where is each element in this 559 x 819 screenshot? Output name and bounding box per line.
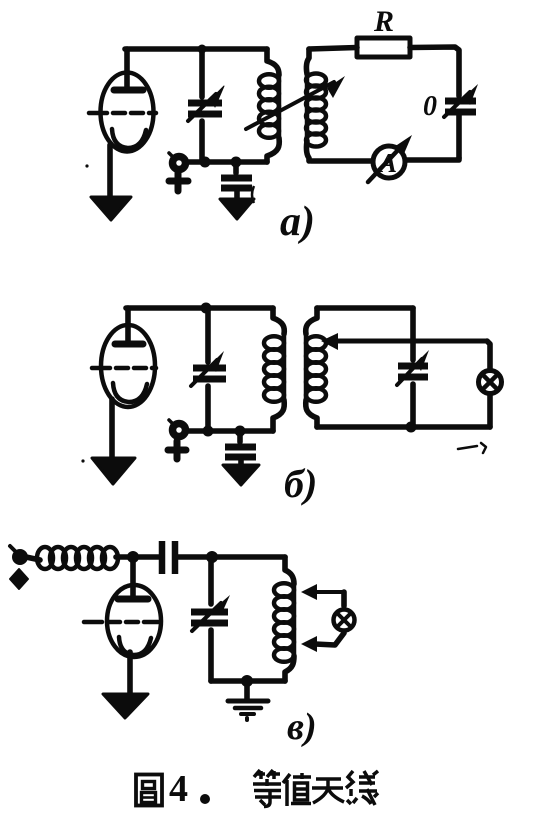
- tube V3 envelope: [107, 585, 161, 657]
- tube V1 cathode: [112, 129, 146, 148]
- capacitor C8 arrow: [192, 603, 221, 631]
- capacitor C6 arrow: [397, 359, 422, 385]
- tube V1 envelope: [101, 73, 154, 152]
- stray mark (print artifact): [458, 443, 486, 453]
- wire: junction 2 to coil branch: [212, 554, 285, 560]
- hanzi TU (picture): [136, 775, 162, 806]
- capacitor C6 variable branch: [410, 308, 416, 360]
- antenna terminal blob: [13, 550, 27, 564]
- speck: [81, 459, 84, 462]
- wire: top wire of grid tank (tube anode to coil L1): [125, 46, 267, 52]
- capacitor C6 plates: [398, 363, 428, 370]
- tap arrow lower: [315, 633, 344, 645]
- node: junction bottom of C1: [200, 157, 211, 168]
- capacitor C4 variable branch: [205, 308, 211, 362]
- tube V2 plate: [115, 341, 143, 348]
- ammeter A: [373, 146, 405, 178]
- ground arrow below C5: [223, 465, 259, 485]
- hanzi DENG (equal): [253, 770, 281, 807]
- capacitor C8 variable branch: [208, 557, 214, 604]
- svg-text:б): б): [284, 461, 317, 506]
- resistor R: [357, 38, 410, 57]
- wire: resistor to right corner: [410, 47, 459, 96]
- stray mark (print artifact): [252, 186, 254, 203]
- ground arrow below tube V3: [103, 694, 148, 718]
- tube V3 plate: [118, 596, 148, 603]
- tube V1 grid (dashed): [89, 111, 156, 116]
- wire: lamp branch down: [487, 341, 490, 368]
- wire: junction to capacitor C7: [133, 554, 159, 560]
- node: junction above tube: [127, 551, 139, 563]
- lamp HL1: [479, 371, 502, 394]
- earth ground symbol: [244, 681, 250, 699]
- capacitor C4 plates: [193, 365, 226, 372]
- speck: [85, 164, 88, 167]
- wire: terminal to coil: [26, 557, 40, 560]
- wire: capacitor to junction 2: [178, 554, 212, 560]
- capacitor C8 plates: [191, 609, 228, 616]
- inductor L3 (primary coil): [273, 308, 284, 334]
- plus mark: [168, 441, 186, 459]
- svg-text:4: 4: [169, 768, 188, 810]
- tube V2 envelope: [101, 325, 155, 407]
- wire: coil to junction: [116, 554, 133, 560]
- wire: cathode lead: [109, 399, 115, 467]
- diamond mark: [10, 569, 28, 589]
- capacitor C3 variable: [456, 115, 462, 158]
- inductor L4 (secondary coil): [306, 308, 317, 334]
- tube V1 anode lead: [124, 49, 130, 87]
- wire: cathode lead down: [107, 145, 113, 207]
- terminal circle (antenna post): [173, 157, 186, 170]
- inductor L1 (tank coil): [267, 49, 279, 75]
- tube V2 cathode: [113, 383, 147, 402]
- hanzi TIAN (sky): [312, 779, 344, 803]
- node: junction C6 bottom: [406, 422, 417, 433]
- lamp HL2: [334, 610, 355, 631]
- wire: tank bottom: [211, 678, 285, 684]
- inductor L2 (secondary coil): [306, 49, 309, 74]
- tube V3 anode lead: [130, 557, 136, 596]
- capacitor C1 plates: [188, 100, 222, 107]
- wire: lamp to bottom: [487, 396, 493, 427]
- tap arrow upper: [315, 590, 344, 594]
- terminal circle: [173, 424, 186, 437]
- ground arrow below tube V1: [91, 197, 131, 220]
- hanzi ZHI (value): [283, 773, 311, 806]
- capacitor C2 (grid bypass to ground): [233, 162, 239, 173]
- svg-text:0: 0: [423, 91, 437, 122]
- wire: secondary top wire to resistor R: [309, 48, 357, 50]
- svg-text:R: R: [373, 5, 394, 38]
- ground arrow below tube V2: [92, 458, 135, 484]
- tube V3 cathode: [119, 637, 151, 655]
- tube V2 grid: [92, 366, 156, 371]
- node: top junction: [201, 303, 212, 314]
- hanzi XIAN (wire): [346, 771, 378, 805]
- tube V2 anode lead: [125, 308, 131, 341]
- wire: secondary tank top: [317, 305, 413, 311]
- node: junction of bypass capacitor C2: [231, 157, 242, 168]
- wire: bottom wire of grid tank: [186, 428, 273, 434]
- node: junction bottom of C4: [203, 426, 214, 437]
- inductor L6 (tank coil): [285, 557, 294, 584]
- svg-text:A: A: [377, 148, 397, 178]
- node: junction of bypass capacitor C5: [235, 426, 246, 437]
- wire: bottom of meter loop: [407, 158, 459, 160]
- tube V3 grid: [84, 620, 158, 625]
- wire: bottom wire of grid tank: [186, 159, 267, 165]
- capacitor C4 arrow: [191, 360, 217, 386]
- wire: secondary tank bottom: [317, 424, 490, 430]
- node: ground junction: [241, 675, 253, 687]
- svg-text:в): в): [287, 706, 317, 748]
- node: junction 2: [206, 551, 218, 563]
- capacitor C1 arrow: [188, 94, 216, 121]
- capacitor C1 variable (tank) vertical branch: [199, 49, 205, 97]
- coupling arrow through L1/L2: [246, 82, 334, 129]
- wire: cathode lead: [127, 652, 133, 700]
- wire: top wire of grid tank: [126, 305, 273, 311]
- ground arrow below C2: [220, 199, 254, 219]
- junction at top of C1: [198, 45, 207, 54]
- capacitor C7 (series, vertical plates): [159, 541, 166, 574]
- tube V1 plate: [114, 87, 143, 94]
- plus mark: [169, 172, 188, 191]
- tap arrow into L4: [334, 339, 487, 344]
- inductor L5 (antenna coil, horizontal): [37, 547, 53, 569]
- svg-text:а): а): [280, 199, 315, 245]
- capacitor C5 bypass to ground: [237, 431, 243, 442]
